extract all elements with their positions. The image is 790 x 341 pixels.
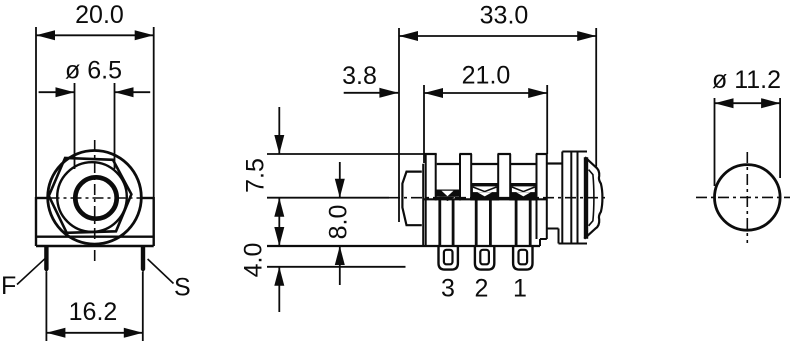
svg-text:7.5: 7.5 <box>242 158 270 193</box>
svg-text:F: F <box>1 272 16 300</box>
svg-text:33.0: 33.0 <box>480 1 529 29</box>
svg-text:ø 6.5: ø 6.5 <box>65 56 122 84</box>
svg-text:ø 11.2: ø 11.2 <box>712 66 781 94</box>
svg-text:3: 3 <box>441 275 455 303</box>
svg-text:16.2: 16.2 <box>69 298 118 326</box>
svg-text:1: 1 <box>513 275 527 303</box>
svg-text:4.0: 4.0 <box>240 243 268 278</box>
svg-text:21.0: 21.0 <box>462 62 511 90</box>
svg-text:2: 2 <box>475 275 489 303</box>
svg-text:3.8: 3.8 <box>342 62 377 90</box>
svg-text:8.0: 8.0 <box>325 205 353 240</box>
svg-text:S: S <box>174 274 191 302</box>
svg-text:20.0: 20.0 <box>75 1 124 29</box>
